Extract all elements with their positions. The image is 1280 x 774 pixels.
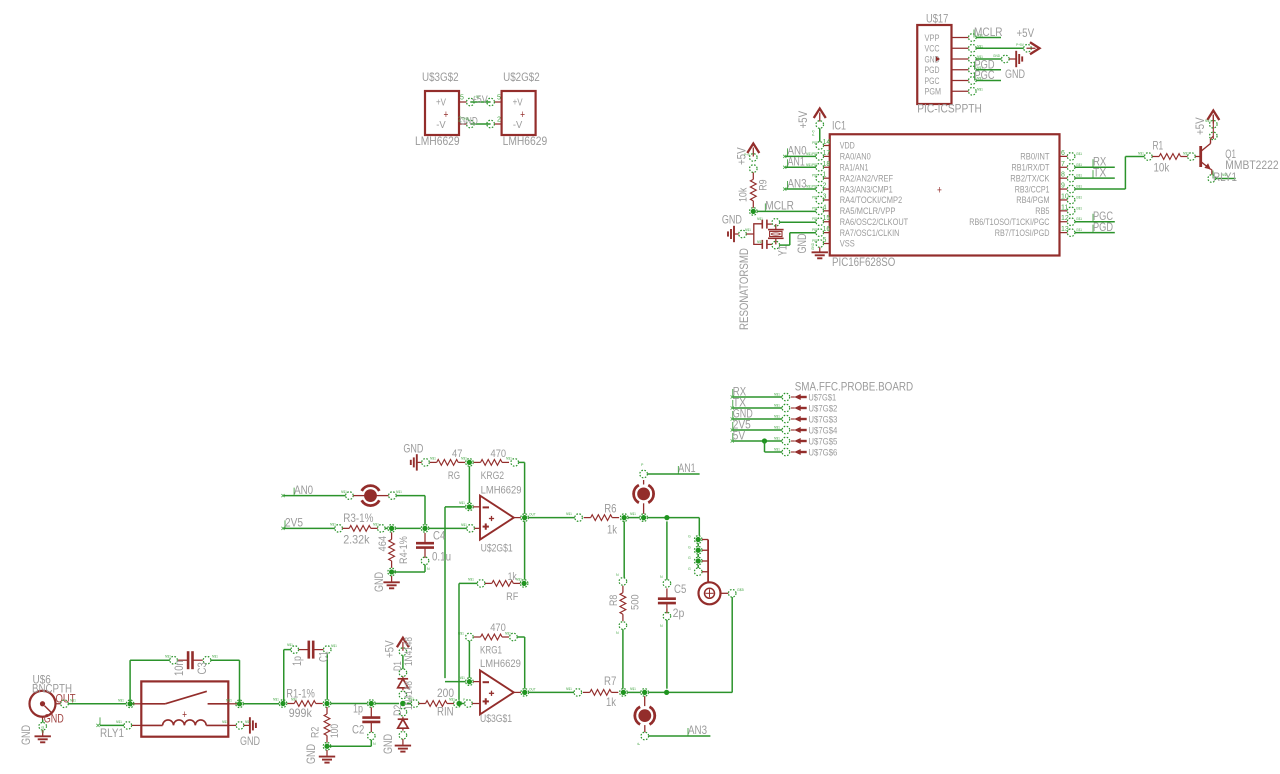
svg-text:18: 18 xyxy=(823,161,831,168)
svg-text:N$1: N$1 xyxy=(461,457,467,461)
svg-text:GND: GND xyxy=(462,117,470,121)
svg-text:N$1: N$1 xyxy=(212,655,218,659)
svg-text:N$1: N$1 xyxy=(505,632,511,636)
svg-text:RB6/T1OSO/T1CKI/PGC: RB6/T1OSO/T1CKI/PGC xyxy=(969,217,1050,227)
svg-text:P$1: P$1 xyxy=(812,163,818,167)
svg-text:14: 14 xyxy=(823,139,831,146)
svg-text:U$7G$5: U$7G$5 xyxy=(808,437,837,448)
svg-text:U$7G$6: U$7G$6 xyxy=(808,448,837,459)
svg-text:U$7G$1: U$7G$1 xyxy=(808,393,836,404)
svg-text:PIC-ICSPPTH: PIC-ICSPPTH xyxy=(917,102,982,116)
svg-text:N$1: N$1 xyxy=(630,512,636,516)
svg-text:G: G xyxy=(688,535,691,539)
svg-text:N$1: N$1 xyxy=(330,523,336,527)
svg-text:5: 5 xyxy=(823,237,827,244)
svg-text:N$1: N$1 xyxy=(806,152,812,156)
svg-text:OUT: OUT xyxy=(529,687,536,691)
svg-text:RB1/RX/DT: RB1/RX/DT xyxy=(1012,162,1050,172)
svg-text:-V: -V xyxy=(436,120,446,131)
svg-text:GND: GND xyxy=(381,734,395,754)
svg-text:LMH6629: LMH6629 xyxy=(415,134,460,148)
svg-text:P$1: P$1 xyxy=(812,195,818,199)
svg-text:G$1: G$1 xyxy=(1076,206,1082,210)
svg-text:999k: 999k xyxy=(289,706,313,720)
svg-text:10k: 10k xyxy=(1154,160,1171,174)
svg-text:U$3G$2: U$3G$2 xyxy=(422,70,459,84)
svg-text:GND: GND xyxy=(19,725,33,745)
svg-text:PIC16F628SO: PIC16F628SO xyxy=(832,255,895,269)
svg-text:N$1: N$1 xyxy=(774,437,780,441)
svg-text:N$1: N$1 xyxy=(566,687,572,691)
svg-text:G$1: G$1 xyxy=(1076,163,1082,167)
svg-text:GND: GND xyxy=(41,725,45,733)
svg-text:N$1: N$1 xyxy=(506,457,512,461)
svg-text:RESONATORSMD: RESONATORSMD xyxy=(737,248,751,330)
svg-text:+5V: +5V xyxy=(383,640,397,658)
svg-text:N$1: N$1 xyxy=(222,720,228,724)
svg-text:N$1: N$1 xyxy=(459,501,465,505)
svg-text:0.1u: 0.1u xyxy=(432,550,451,564)
svg-text:VSS: VSS xyxy=(840,239,855,249)
svg-text:GND: GND xyxy=(1005,67,1025,81)
svg-text:N$1: N$1 xyxy=(1138,152,1144,156)
svg-text:AN1: AN1 xyxy=(788,154,806,168)
svg-text:AN1: AN1 xyxy=(678,461,696,475)
svg-text:VCC: VCC xyxy=(925,44,940,54)
svg-text:LMH6629: LMH6629 xyxy=(480,658,521,670)
svg-text:3: 3 xyxy=(823,193,827,200)
svg-text:U$7G$4: U$7G$4 xyxy=(808,426,837,437)
svg-text:R2: R2 xyxy=(310,727,322,738)
svg-text:G$1: G$1 xyxy=(1076,152,1082,156)
svg-text:10n: 10n xyxy=(172,660,186,676)
svg-text:GND: GND xyxy=(240,734,260,748)
svg-text:RA4/TOCKI/CMP2: RA4/TOCKI/CMP2 xyxy=(840,195,902,205)
svg-text:7: 7 xyxy=(1061,161,1065,168)
svg-text:N$1: N$1 xyxy=(1222,173,1228,177)
svg-text:OUT: OUT xyxy=(529,513,536,517)
svg-text:5: 5 xyxy=(460,95,464,102)
svg-text:G$5: G$5 xyxy=(737,588,744,592)
svg-text:+5V: +5V xyxy=(1017,26,1035,40)
svg-text:1N4148: 1N4148 xyxy=(403,637,415,666)
svg-text:RA1/AN1: RA1/AN1 xyxy=(840,162,869,172)
svg-text:RB4/PGM: RB4/PGM xyxy=(1016,195,1049,205)
svg-text:TX: TX xyxy=(1093,165,1106,179)
svg-text:N: N xyxy=(616,631,619,635)
svg-text:G$1: G$1 xyxy=(1076,185,1082,189)
svg-text:U$2G$1: U$2G$1 xyxy=(481,543,513,555)
svg-text:RIN: RIN xyxy=(437,705,454,719)
svg-text:N$1: N$1 xyxy=(1205,119,1211,123)
svg-text:N$1: N$1 xyxy=(774,415,780,419)
svg-text:N$1: N$1 xyxy=(70,699,76,703)
svg-text:GND: GND xyxy=(304,744,318,764)
svg-text:P$1: P$1 xyxy=(812,141,818,145)
svg-text:10k: 10k xyxy=(738,187,750,202)
svg-text:P$1: P$1 xyxy=(812,217,818,221)
svg-text:1p: 1p xyxy=(290,656,304,666)
svg-text:1k: 1k xyxy=(607,523,618,537)
svg-text:P: P xyxy=(637,742,641,745)
svg-text:N$1: N$1 xyxy=(806,185,812,189)
svg-text:2: 2 xyxy=(497,117,501,124)
svg-text:RA3/AN3/CMP1: RA3/AN3/CMP1 xyxy=(840,184,893,194)
svg-text:P$1: P$1 xyxy=(812,206,818,210)
svg-text:RB3/CCP1: RB3/CCP1 xyxy=(1015,184,1050,194)
svg-text:G$1: G$1 xyxy=(1076,174,1082,178)
svg-text:N$1: N$1 xyxy=(806,163,812,167)
svg-text:KRG1: KRG1 xyxy=(480,645,502,657)
svg-text:PGD: PGD xyxy=(925,65,940,75)
svg-text:PGC: PGC xyxy=(975,68,995,82)
svg-text:N$1: N$1 xyxy=(774,448,780,452)
svg-text:N: N xyxy=(427,567,430,571)
svg-text:U$3G$1: U$3G$1 xyxy=(480,713,512,725)
svg-text:P$1: P$1 xyxy=(812,152,818,156)
svg-text:500: 500 xyxy=(630,594,642,610)
svg-text:LMH6629: LMH6629 xyxy=(503,134,548,148)
svg-text:9: 9 xyxy=(1061,183,1065,190)
svg-text:RG: RG xyxy=(448,470,460,482)
svg-text:N$1: N$1 xyxy=(461,523,467,527)
svg-text:N: N xyxy=(373,742,376,746)
svg-text:GND: GND xyxy=(795,233,809,253)
svg-text:AN0: AN0 xyxy=(294,483,313,497)
svg-text:P+5: P+5 xyxy=(812,130,816,136)
svg-text:RB2/TX/CK: RB2/TX/CK xyxy=(1010,173,1049,183)
svg-text:1N4148: 1N4148 xyxy=(403,681,415,710)
svg-text:N$1: N$1 xyxy=(118,699,124,703)
svg-text:GND: GND xyxy=(372,572,386,592)
svg-text:P$1: P$1 xyxy=(812,185,818,189)
svg-text:N$1: N$1 xyxy=(774,404,780,408)
svg-text:+: + xyxy=(182,709,187,721)
svg-text:SMA.FFC.PROBE.BOARD: SMA.FFC.PROBE.BOARD xyxy=(795,380,914,394)
svg-text:1k: 1k xyxy=(606,695,617,709)
svg-text:N$1: N$1 xyxy=(341,490,347,494)
svg-text:R3-1%: R3-1% xyxy=(343,511,374,525)
svg-text:N$1: N$1 xyxy=(757,240,763,244)
svg-text:N$1: N$1 xyxy=(408,697,414,701)
svg-text:MMBT2222: MMBT2222 xyxy=(1225,158,1279,172)
svg-text:12: 12 xyxy=(1061,215,1069,222)
svg-text:+V: +V xyxy=(513,98,523,109)
svg-text:N$1: N$1 xyxy=(630,687,636,691)
svg-text:P: P xyxy=(463,698,465,702)
svg-text:+5V: +5V xyxy=(474,95,481,99)
svg-text:C3: C3 xyxy=(195,662,209,675)
svg-text:-V: -V xyxy=(513,120,523,131)
svg-text:RB7/T1OSI/PGD: RB7/T1OSI/PGD xyxy=(995,228,1050,238)
svg-text:5: 5 xyxy=(497,95,501,102)
svg-text:U$17: U$17 xyxy=(926,12,949,26)
svg-text:GND: GND xyxy=(811,242,815,250)
svg-text:N$1: N$1 xyxy=(116,720,122,724)
svg-text:KRG2: KRG2 xyxy=(481,470,505,482)
svg-text:N$1: N$1 xyxy=(331,644,337,648)
svg-text:+V: +V xyxy=(436,98,446,109)
svg-text:N$1: N$1 xyxy=(757,217,763,221)
svg-text:5V: 5V xyxy=(733,429,745,443)
svg-text:N$1: N$1 xyxy=(516,578,522,582)
svg-text:G: G xyxy=(688,556,691,560)
svg-text:4: 4 xyxy=(823,204,827,211)
svg-text:P$1: P$1 xyxy=(812,228,818,232)
svg-text:+: + xyxy=(444,109,449,121)
svg-text:LMH6629: LMH6629 xyxy=(481,485,522,497)
svg-text:N: N xyxy=(660,624,663,628)
svg-text:N$1: N$1 xyxy=(468,578,474,582)
svg-text:R1: R1 xyxy=(1153,139,1164,153)
svg-text:P+5: P+5 xyxy=(744,153,750,157)
svg-text:IC1: IC1 xyxy=(832,119,846,133)
svg-text:15: 15 xyxy=(823,215,831,222)
svg-text:N$1: N$1 xyxy=(291,698,297,702)
svg-text:N$1: N$1 xyxy=(449,698,455,702)
svg-text:N$1: N$1 xyxy=(373,523,379,527)
svg-text:R6: R6 xyxy=(604,501,617,515)
svg-text:C2: C2 xyxy=(352,723,365,737)
svg-text:N$1: N$1 xyxy=(774,426,780,430)
svg-text:2V5: 2V5 xyxy=(285,516,303,530)
svg-text:G$1: G$1 xyxy=(1076,217,1082,221)
svg-text:PGD: PGD xyxy=(1093,220,1113,234)
svg-text:8: 8 xyxy=(1061,172,1065,179)
svg-text:C5: C5 xyxy=(674,582,687,596)
svg-text:N$1: N$1 xyxy=(566,512,572,516)
svg-text:N$1: N$1 xyxy=(977,87,983,91)
svg-text:P$1: P$1 xyxy=(812,174,818,178)
svg-text:N: N xyxy=(616,573,619,577)
svg-text:N$1: N$1 xyxy=(430,457,436,461)
svg-text:1: 1 xyxy=(823,172,827,179)
svg-text:G: G xyxy=(688,545,691,549)
svg-text:N$1: N$1 xyxy=(245,720,251,724)
svg-text:N$1: N$1 xyxy=(273,698,279,702)
svg-text:GND: GND xyxy=(722,212,742,226)
svg-text:N$1: N$1 xyxy=(459,676,465,680)
svg-text:C4: C4 xyxy=(433,529,446,543)
svg-text:N$1: N$1 xyxy=(774,393,780,397)
svg-text:2.32k: 2.32k xyxy=(343,533,370,547)
svg-text:Y1: Y1 xyxy=(775,245,789,256)
svg-text:N$1: N$1 xyxy=(745,228,751,232)
svg-text:VPP: VPP xyxy=(925,33,940,43)
svg-text:N$1: N$1 xyxy=(226,699,232,703)
svg-text:AN3: AN3 xyxy=(788,176,807,190)
svg-text:PGM: PGM xyxy=(925,87,942,97)
svg-text:16: 16 xyxy=(823,226,831,233)
svg-text:C1: C1 xyxy=(317,651,331,662)
svg-text:AN3: AN3 xyxy=(688,723,707,737)
svg-text:RA2/AN2/VREF: RA2/AN2/VREF xyxy=(840,173,894,183)
svg-text:G: G xyxy=(688,567,691,571)
svg-text:P$1: P$1 xyxy=(812,239,818,243)
svg-text:GND: GND xyxy=(403,442,423,456)
svg-text:VDD: VDD xyxy=(840,141,855,151)
svg-text:464: 464 xyxy=(377,536,389,552)
svg-text:G$1: G$1 xyxy=(1076,228,1082,232)
svg-text:+: + xyxy=(520,109,525,121)
svg-text:10: 10 xyxy=(1061,193,1069,200)
svg-text:100: 100 xyxy=(329,724,341,738)
svg-text:RA0/AN0: RA0/AN0 xyxy=(840,152,871,162)
svg-text:N: N xyxy=(660,575,663,579)
svg-text:N$1: N$1 xyxy=(396,490,402,494)
svg-text:13: 13 xyxy=(1061,226,1069,233)
svg-text:470: 470 xyxy=(491,448,507,460)
svg-text:R8: R8 xyxy=(608,595,620,606)
svg-text:R7: R7 xyxy=(604,674,617,688)
svg-text:2: 2 xyxy=(823,183,827,190)
svg-text:RA6/OSC2/CLKOUT: RA6/OSC2/CLKOUT xyxy=(840,217,909,227)
svg-text:11: 11 xyxy=(1061,204,1068,211)
svg-text:RA7/OSC1/CLKIN: RA7/OSC1/CLKIN xyxy=(840,228,900,238)
svg-text:PGC: PGC xyxy=(925,76,940,86)
svg-text:R9: R9 xyxy=(758,179,770,190)
svg-text:RA5/MCLR/VPP: RA5/MCLR/VPP xyxy=(840,206,896,216)
svg-text:G$1: G$1 xyxy=(1076,195,1082,199)
svg-text:RLY1: RLY1 xyxy=(100,726,124,740)
svg-text:R4-1%: R4-1% xyxy=(398,536,410,564)
svg-text:MCLR: MCLR xyxy=(974,25,1003,39)
svg-text:RF: RF xyxy=(506,591,518,603)
svg-text:N$1: N$1 xyxy=(287,643,293,647)
svg-text:N$1: N$1 xyxy=(165,655,171,659)
svg-text:GND: GND xyxy=(44,712,64,726)
svg-text:MCLR: MCLR xyxy=(765,199,794,213)
svg-text:U$2G$2: U$2G$2 xyxy=(503,70,540,84)
svg-text:P: P xyxy=(641,463,644,467)
svg-text:U$7G$2: U$7G$2 xyxy=(808,404,837,415)
svg-text:RB0/INT: RB0/INT xyxy=(1020,152,1050,162)
svg-text:P+5V: P+5V xyxy=(1016,43,1025,47)
svg-text:N$1: N$1 xyxy=(1183,152,1189,156)
svg-text:RB5: RB5 xyxy=(1035,206,1049,216)
svg-text:+: + xyxy=(937,185,942,197)
svg-text:2p: 2p xyxy=(673,606,685,620)
svg-text:6: 6 xyxy=(1061,150,1065,157)
svg-text:+5V: +5V xyxy=(796,111,810,129)
svg-text:U$7G$3: U$7G$3 xyxy=(808,415,837,426)
svg-text:17: 17 xyxy=(823,150,831,157)
svg-text:470: 470 xyxy=(490,622,506,634)
